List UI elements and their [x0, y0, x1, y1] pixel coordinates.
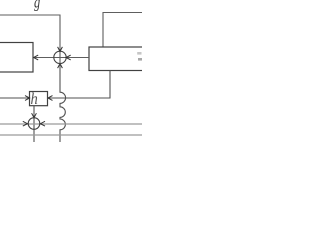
- wire h output down to S2: [33, 106, 35, 143]
- block left (cut off at left edge): [0, 43, 33, 73]
- wire vertical x60 with hops: [60, 64, 66, 143]
- faint cut text inside right box: [137, 52, 142, 61]
- wire into h from left: [0, 97, 29, 99]
- arrowhead into S2 from right: [40, 121, 45, 126]
- arrowhead into S2 from top: [32, 113, 37, 118]
- label h: [31, 93, 37, 105]
- arrowhead into h block right edge: [48, 96, 53, 101]
- block h: [30, 92, 48, 106]
- wire gray bus y135: [0, 134, 142, 136]
- arrowhead into left box: [34, 55, 39, 60]
- summing junction S1 upper circle: [54, 51, 66, 63]
- arrowhead into S1 from right: [66, 55, 71, 60]
- arrowhead into S2 from left: [23, 121, 28, 126]
- wire top right into right box: [103, 13, 142, 48]
- arrowhead into S1 from top: [58, 47, 63, 52]
- block right (cut off at right edge): [89, 47, 149, 71]
- arrowhead into h block left edge: [25, 96, 30, 101]
- wire from right box bottom to h block: [49, 71, 111, 99]
- wire gray bus y124: [0, 123, 142, 125]
- node g label: [34, 0, 40, 11]
- summing junction S2 lower circle: [28, 118, 40, 130]
- wire g input top: [0, 15, 60, 64]
- wire horizontal through summing junction y57.5: [34, 57, 90, 59]
- arrowhead into S1 from bottom: [58, 64, 63, 69]
